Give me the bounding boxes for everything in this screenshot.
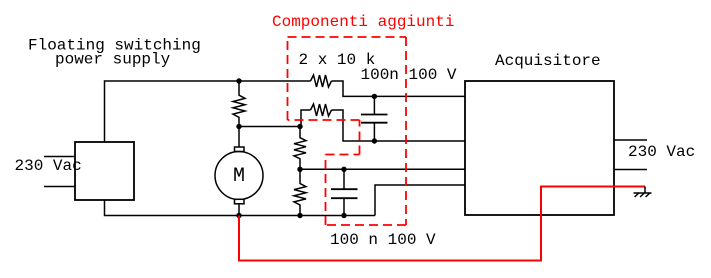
junction dot: motor bottom	[236, 213, 241, 218]
junction dot: divider tap	[297, 167, 302, 172]
svg-text:100n 100 V: 100n 100 V	[361, 66, 457, 84]
terminal line: PS1 upper input	[44, 156, 75, 158]
terminal line: U1 lower output	[614, 169, 647, 171]
junction dot: node A / Ra top	[236, 78, 241, 83]
wire: PS1 bottom to bottom rail	[105, 200, 376, 216]
label: 230 Vac (left)	[15, 157, 82, 175]
wire: PS1 top to node A (top rail)	[105, 81, 311, 142]
junction dot: C2 bottom	[341, 213, 346, 218]
junction dot: node B / R3 top	[297, 124, 302, 129]
wire: bottom rail step up to acquisitore	[375, 185, 465, 216]
svg-text:230 Vac: 230 Vac	[628, 143, 695, 161]
resistor R2 (10k lower)	[311, 104, 332, 116]
svg-text:100 n 100 V: 100 n 100 V	[330, 231, 436, 249]
resistor R1 (10k upper)	[311, 75, 332, 87]
wire: R1 right step down to node C rail	[332, 81, 466, 96]
label: 100 n 100 V (lower capacitor)	[330, 231, 436, 249]
dashed outline: componenti aggiunti box	[288, 37, 407, 225]
ground symbol (chassis earth)	[634, 187, 652, 198]
label: 2 x 10 k	[299, 51, 376, 69]
label: Acquisitore	[495, 52, 601, 70]
wire: node E rail (divider tap to acquisitore)	[300, 168, 465, 170]
wire: R2 right step down to node D rail	[332, 110, 466, 141]
acquisitore box U1	[465, 81, 614, 215]
wire: R2 left lead to node B	[301, 110, 311, 127]
svg-text:power supply: power supply	[55, 51, 171, 69]
label: Componenti aggiunti	[272, 13, 454, 31]
junction dot: R4 bottom	[297, 213, 302, 218]
junction dot: Ra bottom / node B	[236, 124, 241, 129]
resistor R3 (divider upper)	[294, 127, 306, 170]
resistor Ra (vertical, across supply)	[233, 81, 245, 127]
svg-text:Acquisitore: Acquisitore	[495, 52, 601, 70]
svg-text:230 Vac: 230 Vac	[15, 157, 82, 175]
junction dot: C1 top	[372, 94, 377, 99]
svg-text:M: M	[233, 165, 245, 188]
svg-text:Componenti aggiunti: Componenti aggiunti	[272, 13, 454, 31]
junction dot: C2 top	[341, 167, 346, 172]
wire: earth connection (red)	[239, 187, 645, 261]
terminal line: PS1 lower input	[44, 186, 75, 188]
terminal line: U1 upper output	[614, 139, 647, 141]
label: 230 Vac (right)	[628, 143, 695, 161]
power supply box PS1	[75, 142, 134, 200]
junction dot: C1 bottom	[372, 138, 377, 143]
label: Floating switching power supply	[28, 37, 201, 69]
resistor R4 (divider lower)	[294, 169, 306, 215]
label: 100n 100 V (upper capacitor)	[361, 66, 457, 84]
wire: node B horizontal (to divider column)	[239, 126, 300, 128]
capacitor C1	[361, 96, 388, 141]
motor M1	[215, 127, 263, 216]
capacitor C2	[331, 169, 358, 215]
